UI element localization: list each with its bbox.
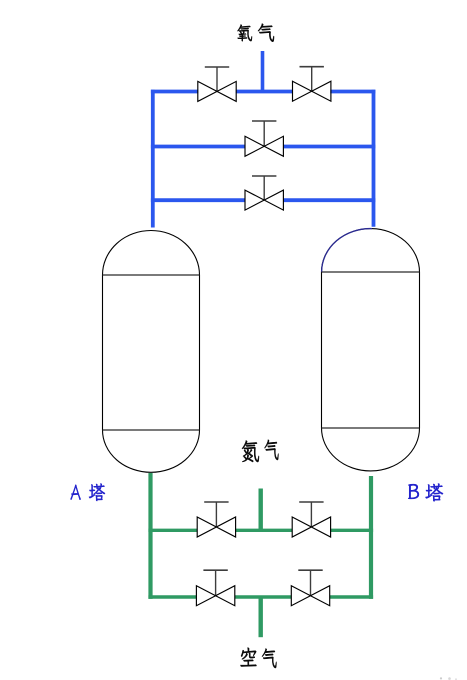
wire: oxygen header row1 left segment [151,90,198,94]
tower B top seam [322,271,420,273]
wire: tower B bottom riser (green) [369,476,373,599]
label air char 1 (空) [241,648,257,667]
wire: oxygen header row3 left segment [151,198,245,202]
label oxygen char 1 (氧) [237,24,252,41]
adsorption tower B vessel [322,229,420,471]
label nitrogen char 2 (气) [264,440,278,460]
adsorption tower A vessel [103,231,200,473]
label tower A char (塔) [89,483,105,501]
valve top row1 left stem [216,67,218,91]
wire: oxygen header row2 left segment [151,145,245,149]
wire: nitrogen outlet stub [259,489,263,533]
wire: lower header row5 right segment [330,595,373,598]
valve top row1 right body [293,81,331,101]
valve top row3 center stem [263,176,265,200]
valve top row1 right stem [311,67,313,92]
label oxygen char 2 (气) [258,24,274,42]
label tower A letter [70,485,80,500]
wire: left blue riser [151,90,155,228]
wire: lower header row4 middle segment [235,529,292,532]
wire: oxygen header row1 middle segment [236,90,293,94]
valve top row1 left body [198,81,236,101]
wire: oxygen header row2 right segment [283,145,375,149]
tower A top seam [103,274,200,276]
wire: oxygen header row1 right segment [330,90,375,94]
wire: lower header row4 left segment [148,529,197,532]
valve top row2 center stem [263,121,265,146]
wire: right blue riser [372,90,376,227]
wire: blue arc along tower B dome left half [322,229,372,272]
faint page specks bottom-right corner [440,677,442,679]
wire: air inlet stub [259,597,263,637]
label nitrogen char 1 (氮) [242,440,259,461]
tower B bottom seam [322,427,420,429]
valve bottom row5 right body [291,586,329,606]
valve bottom row4 left stem [215,502,217,527]
label tower B char (塔) [425,484,443,502]
valve bottom row5 right stem [310,570,312,596]
tower A bottom seam [103,429,200,431]
wire: lower header row5 middle segment [235,595,291,598]
valve bottom row4 right body [292,517,330,537]
valve bottom row5 left stem [215,570,217,596]
label air char 2 (气) [262,648,277,668]
valve bottom row4 right stem [310,502,312,527]
valve top row3 center body [245,190,283,210]
valve bottom row4 left body [197,517,235,537]
valve bottom row5 left body [196,586,234,606]
label tower B letter [408,484,419,499]
wire: lower header row4 right segment [331,529,373,532]
wire: lower header row5 left segment [148,595,196,598]
wire: oxygen inlet stub [261,51,265,93]
wire: oxygen header row3 right segment [283,198,375,202]
wire: tower A bottom riser (green) [148,473,152,599]
valve top row2 center body [245,136,283,156]
